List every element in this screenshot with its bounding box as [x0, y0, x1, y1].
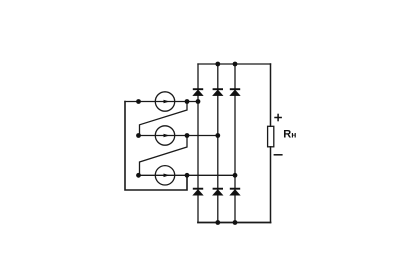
EMF arrow inside G2 [164, 134, 170, 138]
junction: G1 right / diagonal tap [185, 99, 190, 104]
junction: phase B on leg2 [215, 133, 220, 138]
wire: load branch lower segment [270, 147, 272, 223]
wire: bridge leg 3 (vertical) [234, 64, 236, 223]
diode VD3 triangle [230, 90, 240, 96]
diode VD2 cathode bar [213, 88, 223, 90]
junction: top rail leg3 [233, 62, 238, 67]
diode VD4 cathode bar [193, 188, 203, 190]
wire: phase A row (source G1 right terminal to diode leg 1) [125, 101, 198, 103]
junction: G2 right / diagonal tap [185, 133, 190, 138]
EMF source G2 circle [155, 126, 174, 145]
wire: bridge leg 1 (vertical) [197, 64, 199, 223]
junction: G2 left terminal [136, 133, 141, 138]
wire: negative bottom rail [198, 222, 271, 224]
diode VD5 cathode bar [213, 188, 223, 190]
junction: G3 right / loop tap [185, 173, 190, 178]
diode VD1 cathode bar [193, 88, 203, 90]
junction: G3 left terminal [136, 173, 141, 178]
wire: outer loop (G3 right terminal around to G1 left terminal) [125, 102, 187, 191]
wire: positive top rail [198, 63, 271, 65]
junction: bottom rail leg3 [233, 220, 238, 225]
junction: top rail leg2 [215, 62, 220, 67]
wire: phase C row (source G3 right terminal to diode leg 3) [139, 174, 236, 176]
junction: phase A on leg1 [196, 99, 201, 104]
diode VD5 triangle [213, 190, 223, 196]
diode VD2 triangle [213, 90, 223, 96]
EMF arrow inside G1 [164, 100, 170, 104]
EMF source G3 circle [155, 166, 174, 185]
diode VD6 triangle [230, 190, 240, 196]
minus polarity mark [274, 154, 283, 156]
wire: diagonal link G1 right to G2 left (delta) [140, 102, 188, 136]
svg-text:Rн: Rн [283, 129, 296, 141]
diode VD3 cathode bar [230, 88, 240, 90]
plus polarity mark [274, 117, 282, 119]
diode VD1 triangle [193, 90, 203, 96]
EMF arrow inside G3 [164, 174, 170, 178]
junction: bottom rail leg2 [215, 220, 220, 225]
wire: load branch upper segment [270, 64, 272, 126]
diode VD4 triangle [193, 190, 203, 196]
wire: diagonal link G2 right to G3 left (delta) [140, 136, 188, 176]
EMF source G1 circle [155, 92, 174, 111]
wire: bridge leg 2 (vertical) [217, 64, 219, 223]
diode VD6 cathode bar [230, 188, 240, 190]
resistor RH body [268, 126, 274, 147]
junction: G1 left terminal [136, 99, 141, 104]
wire: phase B row (source G2 right terminal to diode leg 2) [139, 135, 218, 137]
junction: phase C on leg3 [233, 173, 238, 178]
